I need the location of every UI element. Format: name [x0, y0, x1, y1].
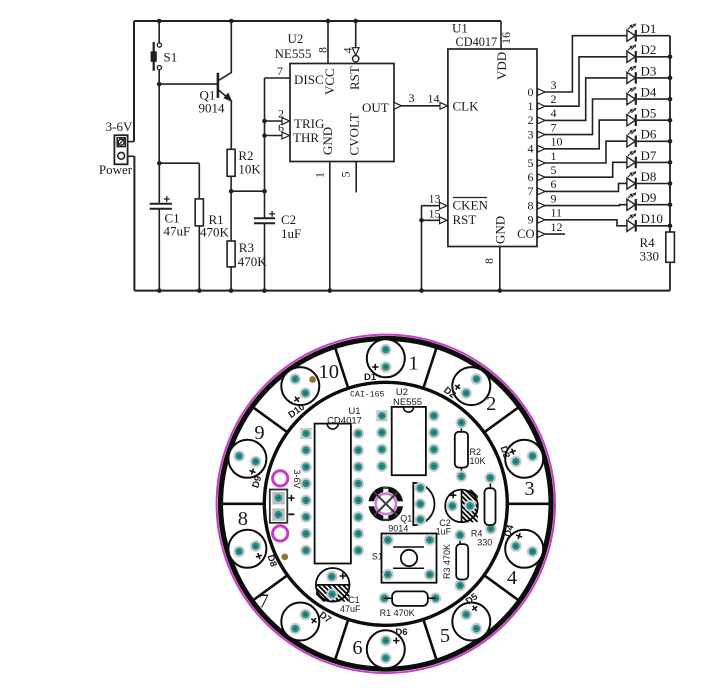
svg-text:RST: RST: [347, 66, 362, 90]
wire: S1 bottom to base node: [158, 70, 160, 164]
svg-text:D10: D10: [641, 211, 663, 226]
svg-text:C2: C2: [281, 212, 296, 227]
wire: LED D10 cathode to bus: [637, 225, 670, 227]
wire: power pin2 to ground rail: [128, 155, 135, 157]
PCB inner black ring: [264, 382, 507, 625]
PCB resistor R1 footprint: [379, 592, 391, 604]
node: junction CKEN/RST: [419, 218, 424, 223]
node: junction bus / D4: [668, 97, 673, 102]
node: junction ground rail / R3: [229, 288, 234, 293]
PCB segment divider spoke 3: [485, 407, 519, 431]
node: junction R2/R3/C2: [229, 189, 234, 194]
node: junction ground rail / C2: [262, 288, 267, 293]
PCB LED D9 polarity +: [248, 467, 256, 475]
PCB center mounting hole: [371, 489, 400, 518]
wire: junction to C2 branch: [231, 190, 264, 192]
PCB LED D7 outer pad: [289, 623, 301, 635]
svg-text:10: 10: [319, 361, 340, 383]
PCB U1 pad right 2: [353, 444, 365, 456]
svg-text:D6: D6: [395, 627, 407, 638]
node: junction ground rail / R1: [197, 288, 202, 293]
PCB transistor Q1 footprint: [413, 483, 434, 525]
wire: R1 bottom to ground: [198, 226, 200, 291]
svg-text:RST: RST: [453, 212, 477, 227]
svg-text:3-6V: 3-6V: [292, 469, 302, 488]
PCB LED footprint D10 circle: [281, 367, 319, 405]
svg-text:330: 330: [477, 538, 492, 548]
svg-text:5: 5: [551, 163, 557, 177]
PCB U1 pad left 7: [300, 528, 312, 540]
wire: DISC pin 7: [265, 77, 291, 79]
svg-text:NE555: NE555: [275, 46, 312, 61]
wire: power pin1 to rail: [128, 141, 134, 143]
LED D10: [627, 214, 636, 232]
PCB segment divider spoke 9: [221, 502, 262, 505]
wire: RST pin15: [422, 219, 447, 221]
wire: LED D2 cathode to bus: [637, 56, 670, 58]
node: junction top rail / S1: [157, 19, 162, 24]
svg-text:S1: S1: [372, 552, 383, 562]
wire: R1 top lead: [198, 163, 200, 199]
PCB segment divider spoke 2: [424, 347, 437, 386]
svg-text:D1: D1: [641, 21, 657, 36]
svg-text:S1: S1: [164, 50, 178, 65]
wire: U1 output pin 5 to LED D7: [537, 162, 627, 177]
PCB magenta hole upper: [273, 471, 288, 486]
PCB U1 pad left 5: [300, 495, 312, 507]
switch S1: [151, 42, 162, 71]
svg-text:CO: CO: [517, 227, 534, 241]
PCB U2 pad right 2: [428, 427, 440, 439]
resistor R2: [227, 149, 235, 176]
PCB U1 pad right 4: [353, 478, 365, 490]
svg-text:2: 2: [278, 107, 284, 121]
PCB U1 pad right 5: [353, 495, 365, 507]
wire: U1 output pin 9 to LED D9: [537, 204, 627, 207]
PCB LED footprint D9 circle: [228, 440, 266, 478]
PCB U1 pad right 3: [353, 461, 365, 473]
wire: LED D9 cathode to bus: [637, 204, 670, 206]
svg-text:6: 6: [352, 637, 362, 659]
PCB via (olive) in D10: [309, 376, 316, 383]
svg-text:R1 470K: R1 470K: [380, 608, 415, 618]
svg-text:R3: R3: [239, 240, 254, 255]
node: junction C1 branch: [157, 161, 162, 166]
PCB LED D3 outer pad: [527, 450, 539, 462]
svg-text:8: 8: [316, 47, 330, 53]
svg-text:U1: U1: [452, 21, 468, 36]
svg-text:D7: D7: [641, 148, 657, 163]
svg-text:DISC: DISC: [294, 72, 324, 87]
wire: LED D6 cathode to bus: [637, 140, 670, 142]
svg-text:GND: GND: [320, 127, 335, 155]
PCB LED D4 outer pad: [527, 546, 539, 558]
svg-text:1: 1: [551, 149, 557, 163]
node: junction C2 top: [262, 189, 267, 194]
op-amp/timer U2 NE555 box: [290, 64, 394, 162]
wire: R4 to ground rail: [669, 262, 671, 290]
PCB magenta hole lower: [273, 526, 288, 541]
PCB resistor R3 footprint: [459, 535, 461, 585]
svg-text:47uF: 47uF: [164, 224, 191, 239]
svg-text:7: 7: [259, 591, 269, 613]
wire: S1 top stub: [158, 21, 160, 43]
svg-text:16: 16: [499, 32, 513, 44]
resistor R4: [666, 232, 675, 262]
wire: U1 output pin 11 to LED D10: [537, 220, 627, 226]
svg-text:7: 7: [528, 184, 534, 198]
svg-text:D6: D6: [641, 127, 657, 142]
svg-text:1: 1: [408, 353, 418, 375]
LED D5: [627, 108, 636, 126]
pin 4 circle: [353, 56, 359, 62]
svg-text:3: 3: [528, 127, 534, 141]
PCB LED D6 outer pad: [380, 652, 392, 664]
PCB LED D6 inner pad: [380, 635, 392, 647]
svg-text:D4: D4: [641, 85, 657, 100]
svg-text:CVOLT: CVOLT: [347, 113, 362, 155]
wire: U1 output pin 6 to LED D8: [537, 183, 627, 191]
svg-text:470K: 470K: [238, 254, 267, 269]
svg-text:11: 11: [551, 206, 563, 220]
wire: R3 bottom to ground rail: [230, 267, 232, 291]
PCB LED D3 polarity +: [509, 447, 517, 455]
svg-text:8: 8: [238, 508, 248, 530]
svg-text:CD4017: CD4017: [327, 416, 362, 427]
PCB LED D7 polarity +: [309, 616, 318, 625]
svg-text:9: 9: [551, 191, 557, 205]
svg-text:13: 13: [429, 192, 441, 206]
PCB LED D5 inner pad: [460, 609, 472, 621]
node: junction THR: [262, 133, 267, 138]
LED D7: [627, 150, 636, 168]
PCB U2 pad left 2: [376, 427, 388, 439]
PCB U1 pad right 6: [353, 511, 365, 523]
svg-text:14: 14: [428, 92, 440, 106]
svg-text:9014: 9014: [199, 101, 226, 116]
PCB U2 pad right 1: [428, 410, 440, 422]
PCB U2 pad left 3: [376, 444, 388, 456]
svg-text:D3: D3: [641, 63, 657, 78]
node: junction bus / D9: [668, 202, 673, 207]
LED D1: [627, 23, 636, 41]
svg-text:R3 470K: R3 470K: [442, 544, 452, 579]
PCB label +: [288, 497, 294, 499]
wire: C2 bottom to ground: [264, 223, 266, 290]
PCB U2 pad right 3: [428, 444, 440, 456]
PCB capacitor C2 footprint: [417, 486, 507, 526]
PCB U1 pad right 7: [353, 528, 365, 540]
svg-text:3: 3: [551, 78, 557, 92]
PCB LED footprint D3 circle: [505, 440, 543, 478]
svg-text:3-6V: 3-6V: [106, 119, 133, 134]
PCB LED footprint D7 circle: [281, 603, 319, 641]
wire: left rail upper (to power connector pin 1): [133, 21, 135, 142]
LED D6: [627, 129, 636, 147]
LED D2: [627, 45, 636, 63]
capacitor C1 47uF: [150, 196, 172, 209]
svg-text:5: 5: [440, 625, 450, 647]
svg-text:7: 7: [277, 64, 283, 78]
svg-text:9014: 9014: [388, 524, 408, 534]
svg-text:4: 4: [341, 48, 355, 54]
PCB U1 pin1 square marker: [301, 428, 312, 439]
svg-text:Power: Power: [99, 162, 133, 177]
node: junction ground rail / pin1: [328, 288, 333, 293]
wire: C1 top lead: [158, 163, 160, 204]
node: junction rail / pin4: [353, 19, 358, 24]
svg-text:D1: D1: [364, 372, 377, 383]
wire: DISC vertical branch: [264, 78, 266, 218]
power connector J1 3-6V: [114, 135, 127, 164]
PCB LED D9 inner pad: [250, 456, 262, 468]
svg-text:3: 3: [524, 478, 534, 500]
wire: CKEN pin13: [422, 205, 447, 207]
PCB LED D4 inner pad: [510, 540, 522, 552]
PCB capacitor C1 footprint: [288, 565, 378, 605]
PCB LED D10 polarity +: [292, 395, 301, 404]
node: junction TRIG: [262, 119, 267, 124]
svg-text:8: 8: [482, 258, 496, 264]
wire: LED D8 cathode to bus: [637, 183, 670, 185]
PCB LED D10 outer pad: [289, 373, 301, 385]
LED D4: [627, 87, 636, 105]
wire: bottom ground rail: [134, 290, 670, 292]
svg-text:D2: D2: [641, 42, 657, 57]
LED D8: [627, 171, 636, 189]
PCB LED D5 outer pad: [471, 623, 483, 635]
PCB LED D6 polarity +: [393, 637, 399, 643]
PCB U1 CD4017 footprint: [315, 424, 351, 564]
svg-text:6: 6: [278, 121, 284, 135]
node: junction bus / D6: [668, 139, 673, 144]
svg-text:9: 9: [528, 213, 534, 227]
svg-text:10K: 10K: [470, 456, 486, 466]
PCB U1 pad right 1: [353, 428, 365, 440]
transistor Q1 9014: [218, 73, 232, 102]
svg-text:6: 6: [551, 177, 557, 191]
svg-text:4: 4: [551, 106, 557, 120]
svg-text:CAI-165: CAI-165: [350, 391, 384, 400]
svg-text:CD4017: CD4017: [456, 35, 498, 49]
PCB segment divider spoke 8: [253, 576, 287, 600]
svg-text:0: 0: [528, 85, 534, 99]
PCB LED D9 outer pad: [233, 450, 245, 462]
PCB label -: [289, 513, 295, 515]
PCB via (olive) near power: [281, 554, 288, 561]
PCB LED footprint D6 circle: [367, 630, 405, 668]
capacitor C2 1uF: [254, 211, 275, 223]
PCB LED D1 inner pad: [380, 361, 392, 373]
wire: U2 pin 4 RST from rail: [355, 21, 357, 52]
node: junction bus / D3: [668, 76, 673, 81]
wire: U1 output pin 4 to LED D3: [537, 78, 627, 121]
svg-text:CLK: CLK: [453, 99, 480, 114]
svg-text:10K: 10K: [238, 161, 261, 176]
svg-text:7: 7: [551, 120, 557, 134]
PCB LED footprint D2 circle: [452, 367, 490, 405]
wire: LED D3 cathode to bus: [637, 77, 670, 79]
PCB LED D4 polarity +: [515, 532, 523, 540]
svg-text:2: 2: [551, 92, 557, 106]
PCB LED D1 outer pad: [380, 344, 392, 356]
PCB segment divider spoke 7: [335, 621, 348, 660]
svg-text:U2: U2: [288, 31, 304, 46]
wire: U1 output pin 7 to LED D4: [537, 99, 627, 135]
PCB LED footprint D8 circle: [228, 530, 266, 568]
PCB segment divider spoke 10: [253, 407, 287, 431]
svg-text:5: 5: [528, 156, 534, 170]
PCB segment divider spoke 4: [509, 502, 551, 505]
wire: R2 bottom to junction: [230, 176, 232, 191]
PCB U1 pad right 8: [353, 545, 365, 557]
PCB U1 pad left 4: [300, 478, 312, 490]
wire: LED D5 cathode to bus: [637, 119, 670, 121]
wire: LED D7 cathode to bus: [637, 161, 670, 163]
PCB LED footprint D4 circle: [505, 530, 543, 568]
svg-text:10: 10: [551, 135, 563, 149]
PCB U1 pad left 6: [300, 511, 312, 523]
svg-text:4: 4: [528, 142, 534, 156]
wire: C1/R1 tap from S1 branch: [159, 162, 199, 164]
wire: CO pin 12 stub: [537, 233, 565, 235]
svg-text:8: 8: [528, 198, 534, 212]
svg-text:1uF: 1uF: [281, 226, 301, 241]
PCB power connector footprint: [270, 490, 288, 523]
node: junction top rail / Q1 collector: [229, 19, 234, 24]
PCB U2 pin1 square marker: [376, 410, 387, 421]
svg-text:THR: THR: [293, 130, 319, 145]
PCB segment divider spoke 1: [335, 347, 348, 386]
node: junction ground rail / C1: [157, 288, 162, 293]
node: junction bus / D2: [668, 55, 673, 60]
PCB resistor R4 footprint: [489, 478, 492, 529]
svg-text:5: 5: [339, 172, 353, 178]
resistor R3: [227, 241, 235, 267]
PCB LED D3 inner pad: [510, 456, 522, 468]
PCB segment divider spoke 5: [485, 576, 519, 600]
wire: U1 pin16 VDD from rail: [500, 21, 502, 49]
svg-text:2: 2: [528, 113, 534, 127]
wire: U1 pin8 GND to ground rail: [499, 247, 501, 291]
node: junction ground rail / U1 pin8: [498, 288, 503, 293]
PCB LED D8 outer pad: [233, 546, 245, 558]
counter U1 CD4017 box: [448, 49, 537, 247]
svg-text:CKEN: CKEN: [453, 198, 489, 213]
PCB U2 pad left 1: [376, 410, 388, 422]
wire: THR pin 6: [265, 135, 290, 137]
wire: Q1 emitter to R2: [230, 101, 232, 150]
PCB U1 pad left 1: [300, 428, 312, 440]
wire: LED D4 cathode to bus: [637, 98, 670, 100]
node: junction bus / D7: [668, 160, 673, 165]
wire: U1 output pin 10 to LED D5: [537, 120, 627, 149]
wire: TRIG pin 2: [265, 120, 290, 122]
wire: Q1 collector to top rail: [230, 21, 232, 73]
PCB outer black ring: [220, 339, 551, 670]
svg-text:47uF: 47uF: [340, 604, 361, 614]
svg-text:VCC: VCC: [322, 68, 337, 95]
PCB U2 NE555 footprint: [392, 407, 426, 475]
resistor R1: [195, 199, 203, 226]
wire: U1 output pin 1 to LED D6: [537, 141, 627, 163]
svg-text:9: 9: [254, 422, 264, 444]
PCB LED D5 polarity +: [470, 604, 479, 613]
svg-text:1: 1: [313, 172, 327, 178]
svg-text:4: 4: [507, 567, 517, 589]
wire: U2 pin 8 VCC to rail: [327, 21, 329, 64]
wire: OUT pin3 to CLK pin14: [394, 105, 447, 107]
node: junction bus / D8: [668, 181, 673, 186]
wire: C1 bottom lead to ground: [158, 209, 160, 291]
svg-text:D8: D8: [641, 169, 657, 184]
node: junction ground rail: [419, 288, 424, 293]
PCB LED D8 polarity +: [255, 552, 263, 560]
svg-text:2: 2: [486, 393, 496, 415]
PCB LED D10 inner pad: [300, 387, 312, 399]
wire: U1 output pin 2 to LED D2: [537, 57, 627, 106]
wire: U1 output pin 3 to LED D1: [537, 36, 627, 92]
svg-text:1uF: 1uF: [436, 527, 452, 537]
svg-text:D9: D9: [641, 190, 657, 205]
PCB resistor R2 footprint: [460, 423, 462, 477]
wire: base wire to Q1: [159, 83, 218, 85]
PCB U1 pad left 2: [300, 444, 312, 456]
node: junction bus / D5: [668, 118, 673, 123]
svg-text:330: 330: [640, 249, 660, 264]
svg-text:15: 15: [429, 207, 441, 221]
PCB LED D2 outer pad: [471, 373, 483, 385]
node: junction S1/base wire: [157, 82, 162, 87]
svg-text:6: 6: [528, 170, 534, 184]
svg-text:3: 3: [409, 91, 415, 105]
PCB LED footprint D1 circle: [367, 339, 405, 377]
svg-text:12: 12: [551, 220, 563, 234]
PCB LED D2 polarity +: [453, 383, 462, 392]
svg-text:470K: 470K: [200, 225, 230, 240]
PCB U1 pad left 8: [300, 545, 312, 557]
wire: CKEN/RST vertical to ground: [421, 206, 423, 291]
PCB U1 pad left 3: [300, 461, 312, 473]
LED D3: [627, 66, 636, 84]
svg-text:D5: D5: [641, 106, 657, 121]
svg-text:NE555: NE555: [393, 397, 422, 408]
wire: top power rail: [134, 20, 501, 22]
PCB switch S1 footprint: [382, 534, 437, 583]
wire: LED D1 cathode to bus: [637, 35, 670, 37]
PCB LED D7 inner pad: [300, 609, 312, 621]
svg-text:Q1: Q1: [400, 514, 412, 524]
PCB LED footprint D5 circle: [452, 603, 490, 641]
PCB LED D8 inner pad: [250, 540, 262, 552]
wire: LED cathode bus: [669, 36, 671, 232]
node: junction rail / pin8: [326, 19, 331, 24]
wire: U2 pin 1 GND to ground rail: [329, 162, 331, 291]
PCB segment divider spoke 6: [424, 621, 437, 660]
wire: U2 pin 5 CVOLT stub: [355, 162, 357, 193]
svg-text:VDD: VDD: [494, 52, 509, 80]
PCB U2 pad left 4: [376, 460, 388, 472]
wire: left rail lower (ground side): [133, 156, 135, 290]
svg-text:1: 1: [528, 99, 534, 113]
svg-text:GND: GND: [493, 216, 508, 244]
wire: junction to R3: [230, 191, 232, 241]
node: junction bus / D10: [668, 224, 673, 229]
PCB LED D1 polarity +: [372, 364, 378, 370]
svg-text:OUT: OUT: [362, 100, 389, 115]
PCB LED D2 inner pad: [460, 387, 472, 399]
LED D9: [627, 192, 636, 210]
